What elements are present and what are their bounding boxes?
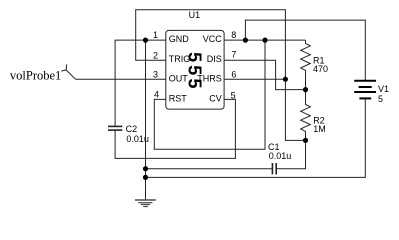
resistor R2 xyxy=(301,90,311,141)
svg-text:CV: CV xyxy=(209,93,222,103)
svg-text:RST: RST xyxy=(169,93,188,103)
op-amp U1 555 timer body xyxy=(166,30,224,109)
wire probe fork arm left xyxy=(61,70,66,71)
wire ground vertical xyxy=(145,40,147,200)
node THRS junction xyxy=(283,77,288,82)
svg-text:0.01u: 0.01u xyxy=(269,151,292,161)
wire pin1 GND row xyxy=(115,40,166,126)
svg-text:OUT: OUT xyxy=(169,73,189,83)
svg-text:volProbe1: volProbe1 xyxy=(10,68,61,82)
capacitor C1 plates xyxy=(272,163,276,174)
svg-text:6: 6 xyxy=(231,69,236,79)
node R2 bottom junction xyxy=(303,138,308,143)
junction dots xyxy=(143,38,308,180)
svg-text:5: 5 xyxy=(378,94,383,104)
svg-text:DIS: DIS xyxy=(207,54,222,64)
wire top net TRIG-THRS link xyxy=(136,10,306,141)
svg-text:4: 4 xyxy=(154,90,159,100)
wire probe fork arm up xyxy=(65,64,68,70)
svg-text:3: 3 xyxy=(153,69,158,79)
node VCC rail junction xyxy=(243,38,248,43)
svg-text:470: 470 xyxy=(313,64,328,74)
ground xyxy=(135,200,156,207)
capacitor C2 plates xyxy=(108,126,122,130)
wire upper ground rail to C1 xyxy=(146,168,273,170)
svg-text:C2: C2 xyxy=(126,124,138,134)
svg-text:GND: GND xyxy=(169,34,190,44)
resistor R1 xyxy=(301,40,311,90)
wire VCC rail to V1 xyxy=(245,20,365,81)
svg-text:1: 1 xyxy=(153,30,158,40)
node R1-R2-DIS junction xyxy=(303,87,308,92)
wire pin3 OUT row xyxy=(76,78,166,80)
node lower ground rail junction xyxy=(143,175,148,180)
wire C1 right to R2 bottom xyxy=(277,140,306,168)
svg-text:5: 5 xyxy=(231,90,236,100)
svg-text:2: 2 xyxy=(153,50,158,60)
wire pin5 CV to C2 bottom xyxy=(115,99,235,158)
svg-text:V1: V1 xyxy=(378,84,389,94)
svg-text:8: 8 xyxy=(231,30,236,40)
svg-text:THRS: THRS xyxy=(197,73,222,83)
svg-text:1M: 1M xyxy=(313,124,326,134)
svg-text:7: 7 xyxy=(231,50,236,60)
battery V1 plates xyxy=(354,81,376,99)
wire pin7 DIS to R1R2 junction xyxy=(224,60,305,89)
wire pin8 VCC row to R1 xyxy=(224,39,305,41)
svg-text:TRIG: TRIG xyxy=(169,54,191,64)
wire pin6 THRS row xyxy=(224,78,285,80)
node pin1-GND junction xyxy=(143,38,148,43)
node upper ground rail junction xyxy=(143,166,148,171)
node RST tie junction xyxy=(262,38,267,43)
svg-text:VCC: VCC xyxy=(203,34,223,44)
svg-text:0.01u: 0.01u xyxy=(126,134,149,144)
svg-text:U1: U1 xyxy=(189,10,201,20)
wire probe diagonal xyxy=(66,70,75,79)
wire pin4 RST loop to VCC xyxy=(154,40,265,149)
wire lower ground rail to V1 minus xyxy=(146,98,366,177)
